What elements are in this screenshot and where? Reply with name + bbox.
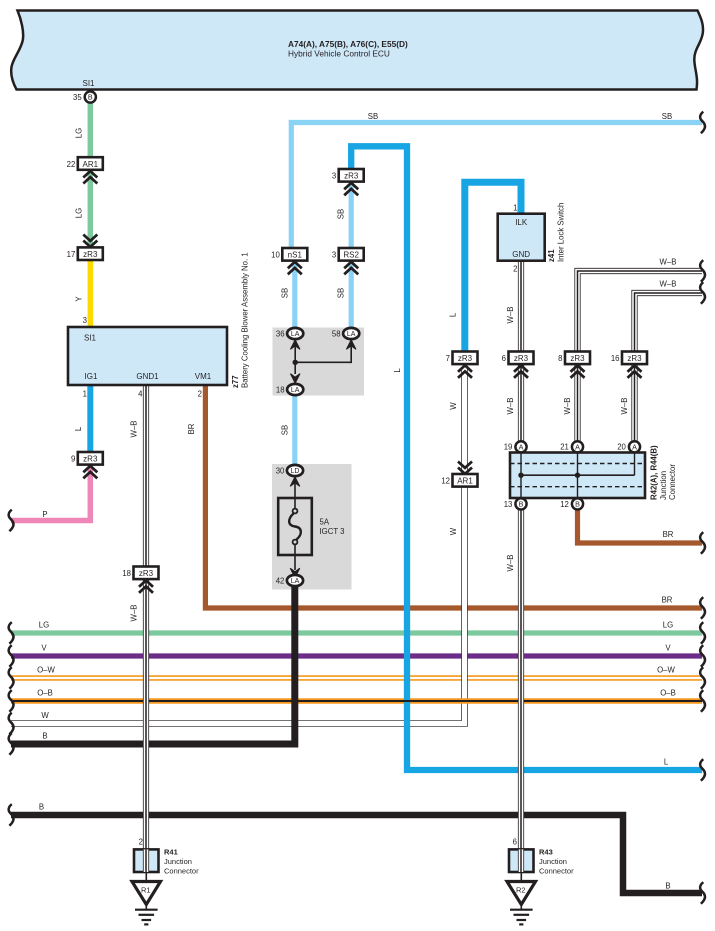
svg-text:Connector: Connector: [668, 464, 677, 500]
wire SB from nS1 to 36 LA: [292, 260, 297, 330]
ground R2: [507, 872, 536, 924]
R42 pin 21 A: [560, 441, 583, 452]
svg-text:LG: LG: [75, 208, 84, 218]
break LG left: [9, 622, 14, 644]
svg-text:LG: LG: [39, 621, 49, 630]
svg-text:20: 20: [617, 443, 626, 452]
connector 42 LA: [276, 575, 303, 586]
svg-text:R2: R2: [516, 886, 526, 895]
svg-text:O–W: O–W: [657, 666, 675, 675]
connector zR3 pin 16: [611, 352, 647, 365]
svg-text:B: B: [39, 803, 44, 812]
wire W-B from ILK GND pin 2 to junction R43: [518, 261, 524, 850]
svg-text:L: L: [74, 426, 83, 431]
component R43 Junction Connector: [509, 849, 534, 872]
break O-B left: [9, 690, 14, 712]
svg-text:B: B: [575, 500, 580, 509]
svg-text:8: 8: [558, 354, 562, 363]
wire Y from zR3 pin 17 to blower pin 3: [88, 259, 94, 328]
wire O-B bus (orange): [11, 698, 702, 704]
svg-text:35: 35: [73, 93, 82, 102]
svg-text:2: 2: [198, 390, 202, 399]
connector AR1 pin 12: [441, 474, 477, 487]
svg-text:V: V: [41, 644, 47, 653]
wire LG from ECU pin 35 to connector zR3 pin 17: [88, 100, 94, 249]
svg-text:22: 22: [67, 160, 76, 169]
svg-text:Inter Lock Switch: Inter Lock Switch: [557, 203, 566, 262]
svg-text:B: B: [665, 882, 670, 891]
svg-text:GND1: GND1: [136, 372, 159, 381]
wire W-B from blower GND1 pin 4 to junction R41: [143, 385, 149, 850]
wire W-B through R43: [518, 849, 524, 872]
svg-text:nS1: nS1: [288, 251, 303, 260]
svg-text:W–B: W–B: [506, 398, 515, 415]
wire SB from RS2 to 58 LA: [349, 260, 354, 330]
svg-text:30: 30: [276, 466, 285, 475]
svg-text:zR3: zR3: [570, 354, 585, 363]
svg-text:L: L: [664, 758, 669, 767]
chevron zR3 3: [344, 183, 358, 195]
component R42(A) R44(B) Junction Connector: [510, 453, 645, 499]
svg-text:16: 16: [611, 354, 620, 363]
connector RS2 pin 3: [332, 248, 364, 261]
chevron zR3 8: [571, 365, 585, 377]
svg-text:VM1: VM1: [195, 372, 212, 381]
svg-text:A: A: [519, 442, 524, 451]
wire SB from 18 LA to 30 LD: [292, 394, 297, 468]
svg-text:BR: BR: [663, 530, 674, 539]
svg-text:zR3: zR3: [514, 354, 529, 363]
ground R1: [132, 872, 161, 924]
svg-text:LA: LA: [291, 387, 300, 394]
svg-text:13: 13: [504, 500, 513, 509]
ECU A74/A75/A76/E55 Hybrid Vehicle Control ECU: [11, 11, 703, 90]
svg-text:LA: LA: [347, 331, 356, 338]
svg-text:Junction: Junction: [164, 857, 192, 866]
break B left: [9, 733, 14, 755]
chevron zR3 7: [458, 365, 472, 377]
svg-text:BR: BR: [187, 423, 196, 434]
svg-text:W–B: W–B: [506, 555, 515, 572]
arrow into 58 LA: [346, 340, 356, 350]
wire W-B from right edge to zR3 pin 16 and R42 pin 20: [635, 293, 703, 442]
svg-text:R1: R1: [141, 886, 151, 895]
wire L from zR3 pin 7 to Inter Lock Switch pin 1: [465, 182, 521, 352]
wire O-B bus (black tracer): [11, 700, 702, 702]
svg-text:1: 1: [513, 204, 517, 213]
chevron zR3 18: [139, 580, 153, 592]
svg-text:SB: SB: [337, 209, 346, 219]
svg-text:Junction: Junction: [659, 471, 668, 500]
wire P from zR3 pin 9 to left edge: [11, 465, 90, 521]
chevron RS2: [344, 262, 358, 274]
connector zR3 pin 9: [71, 452, 103, 465]
break V left: [9, 645, 14, 667]
svg-text:RS2: RS2: [343, 251, 359, 260]
wire V bus: [11, 653, 702, 658]
chevron AR1 12: [458, 462, 472, 474]
arrow into 42 LA: [290, 568, 300, 578]
svg-text:2: 2: [513, 265, 517, 274]
svg-text:W–B: W–B: [563, 398, 572, 415]
svg-text:SB: SB: [368, 112, 378, 121]
svg-text:L: L: [393, 368, 402, 373]
svg-text:A: A: [575, 442, 580, 451]
wire SB horizontal from nS1 to right edge: [291, 123, 702, 250]
wire SB from zR3 pin 3 to RS2 pin 3: [349, 181, 354, 249]
svg-text:2: 2: [139, 838, 143, 847]
break B bottom right: [700, 882, 705, 904]
junction block shading (LA connector group): [273, 328, 365, 396]
chevron zR3 17: [83, 235, 97, 247]
chevron zR3 9: [83, 466, 97, 478]
break V right: [700, 645, 705, 667]
wire LG bus: [11, 630, 702, 635]
break LG right: [700, 622, 705, 644]
component z41 Inter Lock Switch: [498, 214, 545, 261]
svg-text:GND: GND: [512, 250, 530, 259]
arrow into 30 LD: [290, 477, 300, 487]
svg-text:SB: SB: [662, 112, 672, 121]
svg-text:IGCT 3: IGCT 3: [320, 527, 345, 536]
break O-W left: [9, 667, 14, 689]
svg-text:SB: SB: [280, 288, 289, 298]
svg-text:Y: Y: [75, 296, 84, 302]
svg-text:7: 7: [446, 354, 450, 363]
arrow into 36 LA: [290, 340, 300, 350]
svg-text:L: L: [449, 312, 458, 317]
connector zR3 pin 17: [67, 247, 103, 260]
svg-text:42: 42: [276, 576, 285, 585]
svg-text:W–B: W–B: [130, 421, 139, 438]
connector zR3 pin 18: [122, 567, 158, 580]
component z77 Battery Cooling Blower Assembly No. 1 (SI1): [68, 327, 227, 385]
svg-text:19: 19: [504, 443, 513, 452]
svg-text:12: 12: [441, 477, 450, 486]
wire through fuse IGCT3: [294, 476, 296, 570]
svg-text:17: 17: [67, 250, 76, 259]
break O-W right: [700, 667, 705, 689]
R42 pin 12 B: [560, 498, 583, 509]
break L right: [700, 759, 705, 781]
connector zR3 pin 7: [446, 352, 478, 365]
svg-text:SI1: SI1: [84, 334, 97, 343]
svg-text:Connector: Connector: [164, 867, 199, 876]
svg-text:21: 21: [560, 443, 569, 452]
svg-text:LG: LG: [75, 128, 84, 138]
svg-text:Hybrid Vehicle Control ECU: Hybrid Vehicle Control ECU: [288, 49, 390, 59]
svg-text:R43: R43: [539, 848, 553, 857]
svg-text:10: 10: [271, 251, 280, 260]
R42 pin 13 B: [504, 498, 527, 509]
svg-text:W–B: W–B: [620, 398, 629, 415]
svg-text:W–B: W–B: [130, 605, 139, 622]
svg-text:V: V: [665, 644, 671, 653]
break W-B right 1: [700, 260, 705, 282]
break W left: [9, 713, 14, 735]
svg-text:P: P: [42, 510, 47, 519]
break BR right: [700, 597, 705, 619]
svg-text:6: 6: [513, 838, 517, 847]
svg-text:O–B: O–B: [37, 689, 53, 698]
svg-text:B: B: [519, 500, 524, 509]
connector 58 LA: [332, 328, 359, 339]
svg-text:A: A: [632, 442, 637, 451]
ECU pin 35 B: [73, 91, 96, 102]
connector zR3 pin 3: [332, 169, 364, 182]
svg-text:LG: LG: [663, 621, 673, 630]
svg-text:Battery Cooling Blower Assembl: Battery Cooling Blower Assembly No. 1: [241, 252, 250, 388]
break BR R42 right: [700, 532, 705, 554]
connector AR1 pin 22: [67, 157, 103, 170]
junction dot LA: [293, 360, 298, 365]
svg-text:zR3: zR3: [83, 250, 98, 259]
chevron nS1: [288, 262, 302, 274]
wire O-W bus: [11, 675, 702, 681]
wire BR (brown) from SI1 VM1 pin 2 to right edge: [205, 385, 702, 608]
svg-text:zR3: zR3: [139, 569, 154, 578]
svg-text:AR1: AR1: [457, 477, 473, 486]
svg-text:3: 3: [332, 172, 336, 181]
svg-text:AR1: AR1: [83, 160, 99, 169]
svg-text:4: 4: [138, 390, 143, 399]
wire W from left edge up to connector AR1 pin 12 and zR3 pin 7: [11, 369, 465, 724]
svg-text:O–B: O–B: [660, 689, 676, 698]
svg-text:R42(A), R44(B): R42(A), R44(B): [650, 445, 659, 500]
arrow into 18 LA: [290, 374, 300, 384]
junction wire 36LA-58LA-18LA: [295, 341, 351, 374]
svg-text:zR3: zR3: [344, 172, 359, 181]
wire BR from R42 pin 12 to right edge: [578, 508, 703, 543]
svg-text:18: 18: [276, 385, 285, 394]
connector 36 LA: [276, 328, 303, 339]
svg-text:zR3: zR3: [458, 354, 473, 363]
svg-text:R41: R41: [164, 848, 178, 857]
svg-text:5A: 5A: [320, 518, 330, 527]
svg-text:12: 12: [560, 500, 569, 509]
break P left: [9, 510, 14, 532]
chevron AR1 22: [83, 171, 97, 183]
svg-text:W–B: W–B: [660, 258, 677, 267]
svg-text:B: B: [42, 732, 47, 741]
svg-text:O–W: O–W: [37, 666, 55, 675]
svg-text:3: 3: [332, 251, 336, 260]
wire W-B from right edge to zR3 pin 8 and R42 pin 21: [578, 271, 703, 442]
R42 pin 19 A: [504, 441, 527, 452]
connector zR3 pin 8: [558, 352, 590, 365]
component R41 Junction Connector: [134, 849, 159, 872]
junction block shading (IGCT fuse group): [272, 464, 352, 590]
svg-text:36: 36: [276, 329, 285, 338]
svg-text:z77: z77: [231, 375, 240, 388]
svg-text:3: 3: [83, 316, 87, 325]
svg-text:6: 6: [502, 354, 506, 363]
svg-text:zR3: zR3: [627, 354, 642, 363]
wire B bottom bus to right edge: [11, 815, 702, 893]
svg-text:A74(A), A75(B), A76(C), E55(D): A74(A), A75(B), A76(C), E55(D): [288, 39, 408, 49]
svg-text:LA: LA: [291, 578, 300, 585]
svg-text:LA: LA: [291, 331, 300, 338]
svg-text:B: B: [88, 93, 93, 102]
connector zR3 pin 6: [502, 352, 534, 365]
svg-text:9: 9: [71, 455, 75, 464]
svg-text:Junction: Junction: [539, 857, 567, 866]
svg-text:IG1: IG1: [85, 372, 98, 381]
svg-text:ILK: ILK: [515, 218, 528, 227]
svg-text:Connector: Connector: [539, 867, 574, 876]
svg-text:W: W: [41, 711, 49, 720]
break SB right: [700, 112, 705, 134]
wire L from blower IG1 pin 1 to zR3 pin 9: [87, 385, 93, 453]
connector nS1 pin 10: [271, 248, 307, 261]
wire L from connector zR3 pin 3 to right edge bus: [351, 146, 702, 770]
svg-text:1: 1: [83, 390, 87, 399]
svg-text:W: W: [449, 527, 458, 535]
break O-B right: [700, 690, 705, 712]
svg-text:W: W: [449, 402, 458, 410]
svg-text:z41: z41: [547, 249, 556, 262]
svg-text:zR3: zR3: [83, 455, 98, 464]
svg-text:LD: LD: [291, 468, 300, 475]
chevron zR3 16: [628, 365, 642, 377]
R42 pin 20 A: [617, 441, 640, 452]
chevron zR3 6: [514, 365, 528, 377]
svg-text:SB: SB: [337, 288, 346, 298]
connector 18 LA: [276, 384, 303, 395]
svg-text:58: 58: [332, 329, 341, 338]
svg-text:BR: BR: [662, 596, 673, 605]
svg-text:SB: SB: [280, 425, 289, 435]
connector 30 LD: [276, 465, 303, 476]
wire W-B through R41: [143, 849, 149, 872]
svg-text:SI1: SI1: [82, 79, 95, 88]
fuse IGCT 3 5A: [278, 498, 344, 555]
break B bottom left: [9, 804, 14, 826]
svg-text:W–B: W–B: [660, 280, 677, 289]
break W-B right 2: [700, 282, 705, 304]
svg-text:18: 18: [122, 569, 131, 578]
wire B from fuse IGCT3 connector 42 LA to left edge: [11, 585, 295, 744]
svg-text:W–B: W–B: [506, 307, 515, 324]
